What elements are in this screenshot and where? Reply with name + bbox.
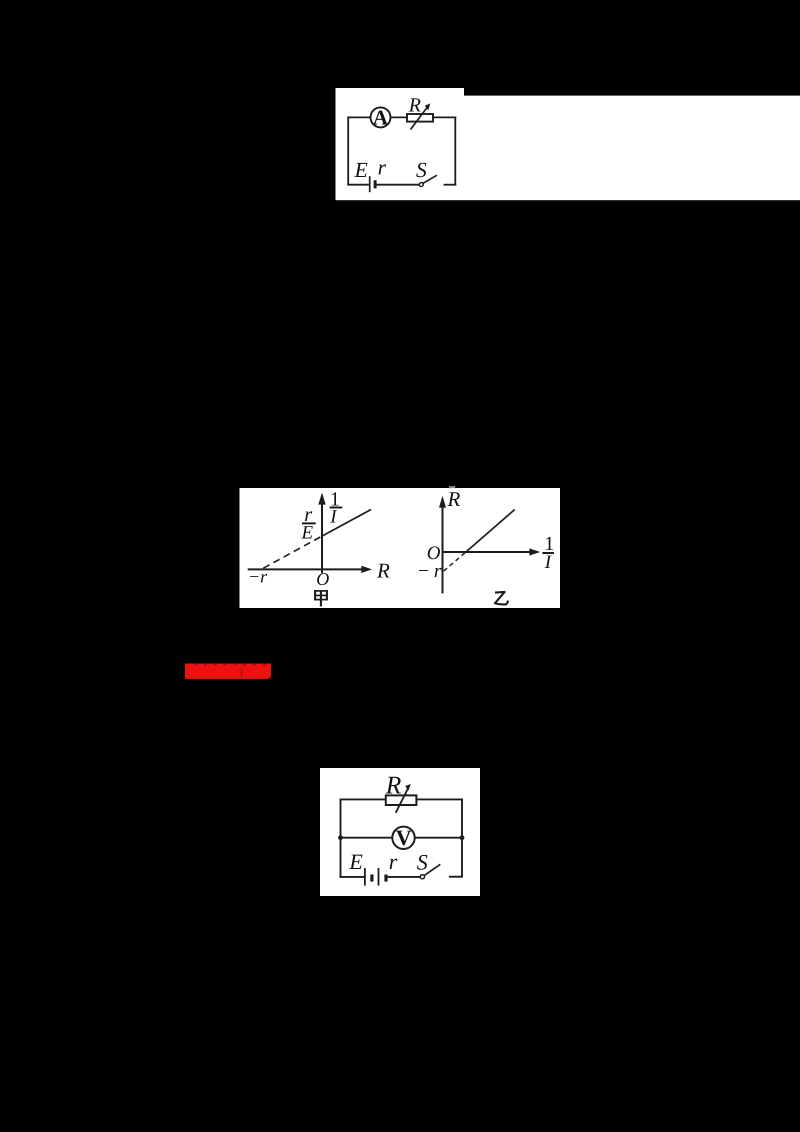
graph yi y-axis <box>442 505 444 593</box>
wire: circuit1 battery to switch <box>377 184 420 186</box>
battery E2 short plate 1 <box>370 875 373 882</box>
graph jia dashed line <box>263 536 322 568</box>
graph yi x-axis <box>443 551 532 553</box>
svg-text:A: A <box>373 105 389 129</box>
graph yi x-axis arrowhead <box>529 548 540 555</box>
wire: circuit1 bottom-left segment <box>347 184 369 186</box>
wire: circuit2 top-left segment <box>340 798 386 800</box>
resistor R arrowhead <box>425 103 431 110</box>
wire: circuit1 bottom-right stub <box>444 184 457 186</box>
wire: circuit2 middle-right segment <box>415 837 462 839</box>
graph jia y-axis <box>321 502 323 573</box>
label jia (CJK) glyph <box>314 590 328 606</box>
svg-text:S: S <box>417 849 428 874</box>
battery E2 short plate 2 <box>384 875 387 882</box>
svg-text:E: E <box>348 849 363 874</box>
resistor R arrow shaft <box>411 106 428 129</box>
svg-text:− r: − r <box>417 561 442 582</box>
label fraction 1/I bar (graph jia) <box>330 507 343 509</box>
resistor R arrowhead (circuit2) <box>405 784 411 791</box>
graph jia y-axis arrowhead <box>318 493 325 505</box>
label fraction 1/I bar (graph yi) <box>542 552 554 554</box>
wire: circuit1 left vertical <box>347 117 349 184</box>
red badge top notches <box>194 664 266 666</box>
wire: circuit1 top-left segment <box>347 116 370 118</box>
wire: circuit2 battery to switch <box>388 876 421 878</box>
panel background: circuit 1 white band (upper-left part) <box>336 88 465 200</box>
graph jia solid line <box>322 510 371 537</box>
red badge corner notch <box>268 676 271 679</box>
svg-text:O: O <box>316 569 329 589</box>
voltmeter V1 body <box>392 827 414 849</box>
battery E2 long plate 2 <box>378 868 380 886</box>
stray gray mark above graph panel <box>449 486 455 488</box>
graph jia x-axis arrowhead <box>361 566 372 573</box>
label fraction r/E bar (graph jia) <box>302 522 316 524</box>
switch S2 lever <box>424 864 440 875</box>
wire: circuit2 middle-left segment <box>341 837 393 839</box>
wire: circuit1 resistor to right corner <box>433 116 456 118</box>
svg-text:r: r <box>389 849 398 874</box>
wire: circuit2 left vertical <box>340 799 342 877</box>
wire: circuit2 bottom-right stub <box>449 876 463 878</box>
wire: circuit1 ammeter to resistor <box>391 116 408 118</box>
svg-text:−r: −r <box>248 566 268 586</box>
battery E1 long plate <box>369 176 371 192</box>
wire: circuit2 top-right segment <box>416 798 463 800</box>
wire: circuit2 bottom-left segment <box>340 876 364 878</box>
wire: circuit2 right vertical <box>461 799 463 878</box>
red heading badge <box>185 664 271 679</box>
panel background: circuit 2 white panel <box>320 768 480 896</box>
panel background: circuit 1 white band (main strip to right edge) <box>336 96 800 201</box>
switch S2 pivot circle <box>420 875 424 879</box>
graph yi solid line <box>466 510 515 553</box>
ammeter A1 body <box>371 107 391 127</box>
svg-text:R: R <box>385 771 402 800</box>
svg-text:V: V <box>396 825 412 850</box>
svg-text:S: S <box>416 158 427 182</box>
svg-text:E: E <box>301 522 314 543</box>
resistor R body (variable rheostat box) <box>407 114 433 122</box>
svg-text:r: r <box>378 156 387 180</box>
svg-text:E: E <box>354 158 368 182</box>
red badge centre slit <box>241 668 242 678</box>
battery E1 short plate <box>374 180 377 188</box>
svg-text:R: R <box>376 558 390 582</box>
svg-text:R: R <box>408 94 421 116</box>
resistor R arrow shaft (circuit2) <box>396 788 409 813</box>
battery E2 long plate 1 <box>364 868 366 886</box>
wire: circuit1 right vertical <box>454 117 456 186</box>
graph yi y-axis arrowhead <box>439 496 446 508</box>
resistor R body (circuit2 rheostat box) <box>386 795 417 805</box>
junction dot right (circuit2) <box>460 835 465 840</box>
svg-text:R: R <box>447 487 461 511</box>
label yi (CJK) glyph <box>495 592 508 605</box>
junction dot left (circuit2) <box>338 835 343 840</box>
graph yi dashed line <box>444 552 466 571</box>
switch S1 pivot circle <box>419 183 423 187</box>
switch S1 lever <box>423 175 437 183</box>
panel background: graphs white panel <box>240 488 561 608</box>
graph jia x-axis <box>248 568 364 570</box>
